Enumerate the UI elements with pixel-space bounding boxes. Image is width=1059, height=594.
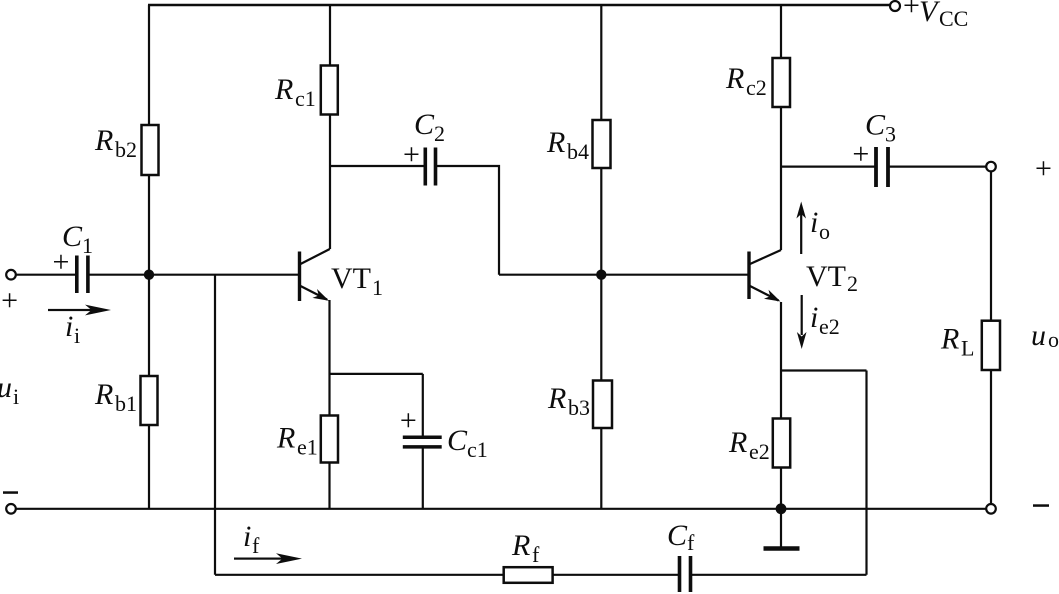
arrow i_f [234, 558, 286, 560]
label minus (input side) [3, 491, 18, 494]
resistor Rf [504, 567, 553, 583]
resistor Re1 [321, 416, 338, 463]
svg-text:R: R [728, 426, 747, 459]
resistor Rc2 [773, 58, 791, 107]
svg-text:+: + [403, 138, 420, 171]
svg-text:+: + [400, 404, 417, 437]
ground [780, 509, 782, 547]
terminal bottom-left [6, 504, 16, 514]
svg-text:b1: b1 [115, 391, 137, 416]
wire C2 left [330, 165, 425, 167]
svg-text:b2: b2 [115, 137, 137, 162]
svg-text:R: R [725, 62, 744, 95]
wire feedback right vertical [865, 371, 867, 575]
wire collector branch VT1 (Rc1) [329, 5, 331, 249]
wire input right (C1 to VT1 base) [88, 274, 299, 276]
svg-text:+: + [903, 0, 920, 22]
svg-text:R: R [547, 382, 566, 415]
arrow i_e2 [801, 295, 803, 335]
svg-text:i: i [13, 384, 19, 409]
resistor Rb2 [142, 125, 159, 175]
svg-text:e2: e2 [819, 314, 840, 339]
svg-text:f: f [687, 530, 695, 555]
transistor VT1 [298, 252, 301, 302]
wire VT2 emitter tee to feedback [781, 369, 867, 371]
svg-text:b3: b3 [568, 395, 590, 420]
svg-text:i: i [243, 520, 251, 553]
svg-text:2: 2 [847, 271, 858, 296]
wire collector branch VT2 (Rc2) [780, 5, 782, 250]
svg-text:R: R [276, 422, 295, 455]
svg-text:R: R [940, 323, 959, 356]
svg-text:R: R [511, 529, 530, 562]
resistor Rc1 [321, 66, 338, 115]
svg-text:o: o [1048, 327, 1059, 352]
svg-text:e1: e1 [297, 435, 318, 460]
svg-text:L: L [961, 336, 974, 361]
svg-text:+: + [1035, 152, 1052, 185]
svg-text:c1: c1 [295, 86, 316, 111]
resistor Rb4 [593, 120, 611, 168]
wire left branch (Rb2/Rb1) [148, 5, 150, 509]
wire emitter branch VT2 (Re2) [780, 302, 782, 509]
capacitor C3 plates [874, 147, 878, 187]
junction node (Re2 to ground rail) [776, 503, 787, 514]
arrow i_o [800, 214, 802, 254]
svg-text:u: u [1031, 319, 1046, 352]
svg-text:R: R [94, 124, 113, 157]
terminal input [6, 270, 16, 280]
svg-text:f: f [252, 533, 260, 558]
svg-text:u: u [0, 371, 12, 404]
svg-text:1: 1 [372, 275, 383, 300]
wire input left (terminal to C1) [16, 274, 77, 276]
VT2 emitter arrowhead [764, 290, 783, 306]
svg-text:R: R [94, 378, 113, 411]
svg-text:+: + [53, 246, 70, 279]
wire Rb4 branch [600, 5, 602, 275]
wire C3 right to output terminal [888, 166, 987, 168]
svg-text:1: 1 [82, 233, 93, 258]
wire mid node to VT2 base [499, 274, 748, 276]
wire Rb3 branch [600, 275, 602, 509]
resistor RL [982, 321, 1000, 370]
svg-text:2: 2 [434, 121, 445, 146]
svg-text:R: R [274, 73, 293, 106]
svg-text:o: o [819, 219, 830, 244]
arrow i_i [48, 309, 94, 311]
resistor Re2 [773, 419, 790, 468]
svg-text:+: + [1, 284, 18, 317]
svg-text:C: C [414, 108, 435, 141]
label minus (output side) [1033, 504, 1049, 507]
svg-text:i: i [74, 323, 80, 348]
svg-text:3: 3 [885, 122, 896, 147]
wire emitter branch VT1 (Re1) [328, 300, 330, 509]
VT1 emitter arrowhead [312, 289, 331, 305]
svg-text:VT: VT [806, 260, 846, 293]
svg-text:R: R [546, 126, 565, 159]
wire VT1 emitter tee to Cc1 [330, 373, 423, 375]
wire C2 right and drop [436, 166, 500, 275]
svg-text:i: i [65, 310, 73, 343]
wire feedback tap (base node down) [214, 275, 216, 575]
terminal output bottom [986, 504, 996, 514]
terminal output top [986, 162, 996, 172]
svg-text:e2: e2 [749, 439, 770, 464]
svg-text:i: i [810, 301, 818, 334]
svg-text:VT: VT [331, 262, 371, 295]
svg-text:C: C [667, 519, 688, 552]
wire VCC top rail [148, 4, 890, 7]
capacitor C2 plates [423, 148, 427, 186]
svg-text:+: + [852, 138, 869, 171]
junction node (input bias) [144, 270, 154, 280]
capacitor C1 plates [75, 256, 79, 294]
wire Cc1 upper lead [422, 374, 424, 437]
wire C3 left [781, 166, 876, 168]
svg-text:b4: b4 [567, 139, 589, 164]
capacitor Cc1 plates [403, 435, 442, 439]
resistor Rb3 [593, 381, 612, 429]
capacitor Cf plates [678, 556, 682, 592]
svg-text:c2: c2 [746, 75, 767, 100]
wire output load branch (RL) [990, 167, 992, 509]
svg-text:c1: c1 [467, 437, 488, 462]
wire feedback bottom right [691, 574, 867, 576]
wire bottom rail [16, 508, 987, 510]
resistor Rb1 [141, 376, 158, 425]
svg-text:C: C [447, 424, 468, 457]
svg-text:CC: CC [939, 6, 968, 31]
terminal +VCC [890, 1, 900, 11]
junction node (VT2 base bias) [596, 270, 606, 280]
wire Cc1 lower lead [422, 447, 424, 509]
svg-text:f: f [532, 542, 540, 567]
wire feedback bottom left [215, 574, 680, 576]
svg-text:i: i [810, 206, 818, 239]
transistor VT2 [747, 252, 750, 300]
